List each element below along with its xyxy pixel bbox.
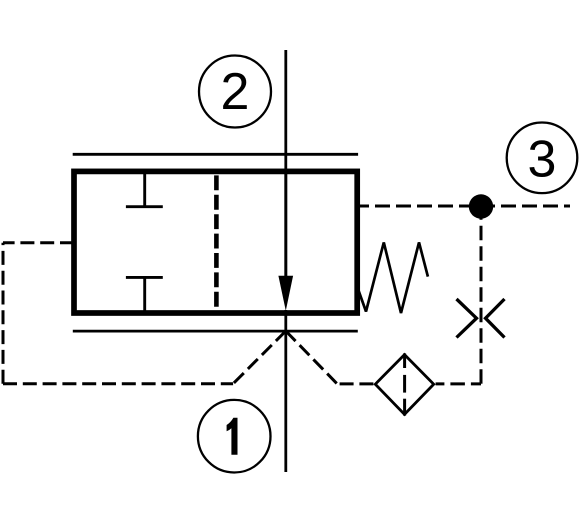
valve envelope (thick rectangle) bbox=[74, 171, 357, 313]
port label 1 (digit) bbox=[227, 418, 238, 455]
bottom port plate line bbox=[73, 330, 358, 333]
pilot wire: dashed horizontal port 3 line bbox=[360, 205, 570, 208]
flow arrowhead bbox=[278, 276, 293, 311]
pilot wire: dashed left vertical rail bbox=[2, 243, 5, 384]
pilot wire: dashed left diagonal from port 1 junction bbox=[233, 331, 286, 384]
pilot wire: dashed right diagonal to port 1 junction bbox=[286, 331, 337, 383]
spool divider (dashed vertical line inside envelope) bbox=[214, 175, 219, 310]
junction node (dot) bbox=[469, 194, 493, 218]
port 2 line (vertical wire from top) bbox=[284, 50, 287, 277]
seat symbol lower (inverted T) bbox=[126, 277, 163, 312]
port 1 line (vertical wire to bottom) bbox=[284, 310, 287, 472]
pilot wire: dashed bottom horizontal rail bbox=[3, 382, 233, 385]
filter (diamond) bbox=[375, 355, 433, 415]
svg-text:3: 3 bbox=[528, 130, 557, 188]
port label 1 (circle) bbox=[198, 400, 271, 473]
spring bbox=[358, 242, 428, 313]
port label 2 (circle) bbox=[199, 56, 271, 128]
pilot wire: dashed horizontal filter to diagonal bbox=[337, 382, 374, 385]
pilot wire: dashed horizontal into envelope left side bbox=[3, 241, 74, 244]
flow arrow line bbox=[284, 171, 287, 278]
filter internal dashed line bbox=[403, 353, 406, 415]
orifice symbol (closing chevrons) bbox=[457, 299, 505, 338]
seat symbol upper (T) bbox=[126, 172, 163, 207]
port label 3 (circle) bbox=[507, 123, 578, 194]
pilot wire: dashed horizontal from corner to filter bbox=[436, 382, 481, 385]
pilot wire: dashed vertical from node to corner bbox=[480, 207, 483, 384]
svg-text:2: 2 bbox=[221, 63, 250, 121]
top port plate line bbox=[73, 153, 358, 156]
